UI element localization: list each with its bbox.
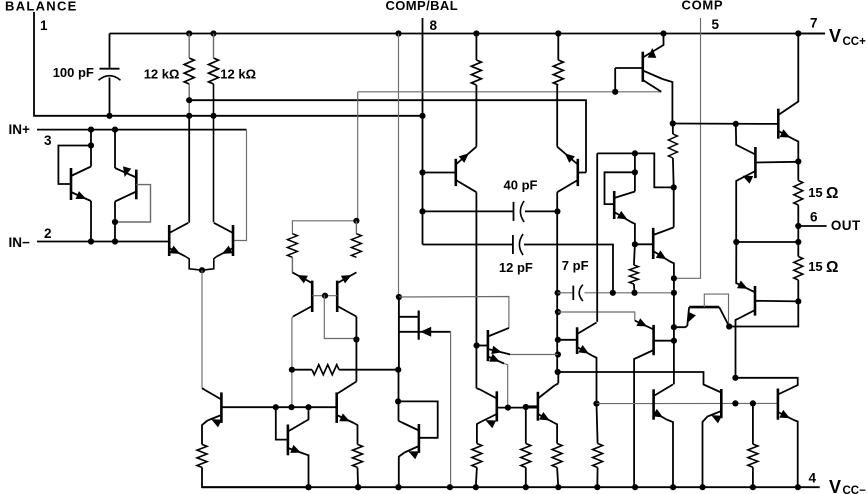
wire: rail left end corner (202, 467, 309, 487)
transistor Q25 diode-connected NPN (287, 425, 290, 456)
resistor R18 body (593, 444, 603, 468)
transistor Q12 current-limit sense (horizontal bar) (689, 306, 719, 309)
wire: x=525.8 vertical to resistor (525, 407, 527, 444)
svg-text:40 pF: 40 pF (504, 178, 538, 193)
svg-text:2: 2 (44, 226, 52, 241)
resistor R14 body (748, 444, 758, 467)
wire: Q1 base loop to IN+ (58, 146, 91, 185)
node: dot x=634.9 y=244.3 (632, 241, 638, 247)
svg-text:CC−: CC− (843, 485, 867, 494)
wire: x=634.9 vertical (Q15 base/collector tie) (634, 153, 636, 191)
node: R5 right dot (395, 367, 401, 373)
wire: Q7 collector down (x=476 segment B) (475, 192, 477, 346)
wire: y=242 wire to output column (736, 241, 798, 243)
node: bottom rail junction dots (305, 484, 311, 490)
wire: L to Q25 base (276, 407, 288, 439)
capacitor C1 100 pF plates (100, 68, 120, 70)
svg-text:100 pF: 100 pF (53, 65, 94, 80)
wire: y=372 wire from x=557 to Q20 collector (558, 372, 722, 393)
resistor R11 15 ohm body (lower) (794, 257, 803, 281)
node: pair top dot (353, 218, 359, 224)
node: 40 pF right dot (554, 208, 560, 214)
resistor R3 body (left emitter resistor) (287, 234, 297, 258)
node: dot x=673.7 y=187.4 (671, 184, 677, 190)
resistor R4 body (right emitter resistor) (355, 221, 357, 234)
wire: x=597 collector vertical segment A (596, 153, 598, 322)
node: C1 bottom junction dot (106, 113, 112, 119)
node: dot x=476 y=346.3 (Q22 base) (474, 342, 480, 348)
node: dot x=525.8 (523, 404, 529, 410)
wire: Q8 collector down to 40pF node (556, 192, 558, 211)
node: Q2 base dot (112, 219, 118, 225)
node: dot x=672.4 y=123.5 (670, 120, 676, 126)
svg-text:IN−: IN− (9, 235, 31, 250)
transistor Q18 NPN (bar x=653.6 lower) (652, 389, 655, 419)
node: dot x=736.3 y=242 (733, 239, 739, 245)
node: dots x=291.9 (289, 367, 295, 373)
svg-text:Ω: Ω (826, 259, 838, 276)
node: dot y=153.4 x=634.9 (632, 150, 638, 156)
resistor R15 body (Q24 emitter) (197, 444, 207, 467)
node: dots on left base bus (273, 404, 279, 410)
pin 1 BALANCE lead (34, 12, 423, 116)
svg-text:V: V (829, 26, 841, 46)
wire: between OUT and y=242 dot (797, 226, 799, 242)
node: IN+ dots (88, 127, 94, 133)
resistor R1 leads (188, 34, 190, 59)
transistor Q6 second stage right (336, 281, 339, 312)
node: dot x=398.5 y=297 (396, 294, 402, 300)
wire: y=91.8 bus (Q9 base bus) (358, 91, 662, 93)
wire: 12 pF right wire corner down at x=613 (524, 245, 613, 293)
wire: IN+ drop to Q4 base (233, 130, 247, 241)
wire: x=398.5 long vertical from top rail (398, 34, 400, 298)
node: Q1 base-collector dot (88, 142, 94, 148)
node: dot x=507.7 y=407.6 (505, 405, 511, 411)
capacitor C1 100 pF vertical leads (109, 34, 111, 68)
node: dot x=634.9 y=172.3 (632, 169, 638, 175)
wire: Q17 base wire (654, 340, 674, 342)
wire: horizontal resistor node left vertical (291, 370, 293, 408)
svg-text:12 kΩ: 12 kΩ (144, 66, 180, 81)
svg-text:BALANCE: BALANCE (5, 0, 78, 14)
wire: x=752.9 vertical to resistor (752, 403, 754, 444)
transistor Q27 NPN (bar x=496.8) (495, 391, 498, 421)
transistor Q21 NPN lower output (735, 378, 797, 395)
wire: y=153.4 link wire with jog (597, 153, 674, 187)
wire: 7 pF right wire (585, 292, 674, 294)
resistor R5 leads (292, 369, 312, 371)
node: dot x=798.3 y=301.4 (795, 298, 801, 304)
wire: base tie down and right to collector node (324, 296, 356, 339)
svg-text:6: 6 (810, 209, 818, 224)
wire: 12 pF wire from pin8 corner (423, 244, 513, 246)
svg-text:V: V (829, 477, 841, 494)
wire: R1 bottom to base of Q8 (runs right, corners down at x=586) (189, 100, 586, 172)
wire: Q22 emitter1 wire right to x=557 (510, 354, 558, 356)
node: dot x=398.5 y=401.4 (395, 398, 401, 404)
svg-text:5: 5 (712, 17, 720, 32)
wire: y=296.5 wire from x=398.9 to Q22 collector (399, 297, 509, 328)
transistor Q24 NPN (bar x=221.4) (220, 392, 223, 423)
svg-text:OUT: OUT (831, 218, 861, 233)
svg-text:12 kΩ: 12 kΩ (220, 66, 256, 81)
svg-text:CC+: CC+ (843, 36, 867, 48)
node: dot x=735.8 y=123.9 (733, 121, 739, 127)
transistor Q14 NPN (652, 228, 655, 259)
svg-text:1: 1 (40, 18, 48, 33)
node: top rail junction dots (186, 30, 192, 36)
resistor R13 body (521, 444, 531, 468)
node: rail dot x=358.1 (355, 484, 361, 490)
wire: D1 cathode top branch (399, 297, 419, 317)
capacitor C2 40 pF (513, 202, 515, 221)
wire: Q15 base loop (605, 172, 635, 204)
wire: x=398.5 vertical continues (398, 297, 400, 370)
transistor Q16 NPN (bar x=577) (576, 327, 579, 354)
resistor R1 12 k-ohm body (184, 58, 194, 84)
resistor R12 body (Q19 emitter) (552, 444, 562, 468)
transistor Q8 middle right NPN (emitter up) (576, 159, 579, 186)
svg-text:4: 4 (809, 470, 817, 485)
wire: V_CC- bottom rail (202, 486, 820, 488)
transistor Q22 dual-emitter NPN (487, 330, 490, 361)
node: dots on x=557 vertical (555, 290, 561, 296)
node: OUT junction dot (795, 223, 801, 229)
svg-text:7: 7 (810, 16, 818, 31)
node: dot x=798.3 y=242 (795, 239, 801, 245)
resistor R5 horizontal body (312, 365, 339, 375)
resistor R9 body (x=673 bias resistor) (668, 134, 677, 158)
node: dot x=735.3 y=377.8 (732, 375, 738, 381)
wire: Q19/Q27 base wire (497, 407, 538, 409)
wire: R7 lead down to Q8 emitter (556, 85, 558, 147)
transistor Q10 output top NPN (777, 109, 780, 139)
transistor Q11 mirrored NPN (Vbe multiplier) (736, 124, 756, 155)
diode D1 anode wire with arrow (398, 317, 400, 370)
wire: V_CC+ top rail (110, 33, 826, 35)
node: 40 pF left dot on pin8 vertical (419, 208, 425, 214)
wire: from y=91.8 bus corner down to pair emitter-resistor top (357, 92, 359, 221)
node: Q7 base dot on pin8 vertical (419, 169, 425, 175)
transistor Q13 protection PNP (736, 242, 755, 292)
node: R1 bottom dots (186, 97, 192, 103)
transistor Q3 input pair left NPN (168, 225, 171, 256)
node: balance wire junction dot at pin8 vertical (419, 113, 425, 119)
resistor R10 15 ohm body (upper) (794, 181, 803, 206)
pin 8 COMP/BAL vertical (422, 18, 424, 245)
wire: emitter-resistor top bus (292, 221, 356, 234)
node: base tie dot (322, 293, 328, 299)
wire: x=557 vertical (Q8 collector chain down) (556, 211, 558, 372)
resistor R7 body (Q8 emitter resistor to rail) (553, 60, 563, 85)
node: R2 bottom dot (210, 113, 216, 119)
wire: y=312 wire from x=557 to Q17 emitter (558, 312, 635, 321)
svg-text:12 pF: 12 pF (499, 260, 533, 275)
svg-text:Ω: Ω (826, 185, 838, 202)
resistor R2 12 k-ohm body (209, 58, 219, 84)
wire: 40 pF right wire (525, 210, 557, 212)
node: rail dot x=308.5 (305, 484, 311, 490)
transistor Q7 middle left NPN (emitter up) (454, 159, 457, 186)
pin 7 stub and label (798, 33, 825, 35)
resistor R8 body (x=634 to 7pF wire) (629, 265, 638, 284)
svg-text:15: 15 (808, 185, 822, 200)
wire: Q5/Q6 base tie (312, 295, 337, 297)
wire: 40 pF left wire from pin8 (423, 210, 514, 212)
wire: x=91 from IN+ down (90, 130, 92, 146)
transistor Q1 input clamp (diode-connected NPN) (70, 168, 73, 200)
resistor R6 body (Q7 emitter resistor to rail) (471, 60, 481, 85)
node: dot x=596.5 y=403.6 (593, 401, 599, 407)
resistor R2 leads (213, 34, 215, 59)
transistor Q26 NPN (bar x=336.7) (335, 392, 338, 423)
node: IN- dots (88, 238, 94, 244)
transistor Q4 input pair right NPN (232, 225, 235, 256)
transistor Q15 diode-connected NPN (613, 191, 616, 219)
wire: IN+ pin 3 horizontal (37, 129, 247, 131)
svg-text:3: 3 (44, 133, 52, 148)
wire: output column corner to current-limit collector bus (729, 301, 798, 326)
diode D1 cathode bar (418, 311, 420, 340)
node: dots on y=403.4 bus (732, 400, 738, 406)
transistor Q19 NPN (bar x=537.9) (537, 392, 540, 421)
svg-text:IN+: IN+ (9, 122, 31, 137)
svg-text:COMP/BAL: COMP/BAL (386, 0, 459, 13)
pin 6 OUT stub (798, 225, 826, 227)
wire: tail current down to Q24 collector (201, 270, 203, 388)
svg-text:15: 15 (808, 259, 822, 274)
wire: R6 lead down to Q7 emitter (475, 85, 477, 147)
transistor Q2 input clamp (diode-connected PNP) (135, 170, 138, 200)
node: dots on 7 pF wire (610, 290, 616, 296)
wire: base bus left (y=407.2) (276, 406, 337, 408)
pin 5 COMP vertical (674, 18, 701, 278)
resistor R16 body (Q26 emitter) (353, 444, 363, 467)
wire: IN- pin 2 horizontal (37, 241, 169, 243)
transistor Q23 diode-connected NPN (bar x=418.9) (398, 401, 438, 437)
svg-text:7 pF: 7 pF (562, 258, 589, 273)
wire: D1 anode right lead down to rail (450, 332, 452, 487)
node: rail dot x=398.8 (395, 484, 401, 490)
transistor Q5 second stage left (311, 281, 314, 312)
resistor R17 body (Q27 emitter) (472, 444, 482, 468)
wire: x=596.5 emitter chain to resistor (597, 404, 598, 444)
wire: 7 pF left wire (558, 292, 574, 294)
svg-text:8: 8 (430, 18, 438, 33)
transistor Q9 dual-collector PNP (641, 52, 644, 82)
transistor Q20 NPN (bar x=721.3) (720, 389, 723, 418)
wire: gray base bus y=403.4 lower right (597, 402, 778, 404)
wire: base drive to output transistor Q10 (673, 123, 779, 125)
node: tail junction dot (199, 267, 205, 273)
transistor Q17 clamp (emitter from y=312 wire) (635, 321, 654, 330)
node: dot x=798.3 y=161.5 (795, 158, 801, 164)
capacitor C4 7 pF (572, 286, 574, 300)
node: dot x=729.2 y=326.5 (726, 323, 732, 329)
svg-text:COMP: COMP (682, 0, 724, 13)
capacitor C3 12 pF (512, 235, 514, 254)
wire: Q2 base loop (115, 185, 151, 222)
node: dot on x=356 vertical (353, 336, 359, 342)
node: dots on x=673.9 vertical (671, 275, 677, 281)
